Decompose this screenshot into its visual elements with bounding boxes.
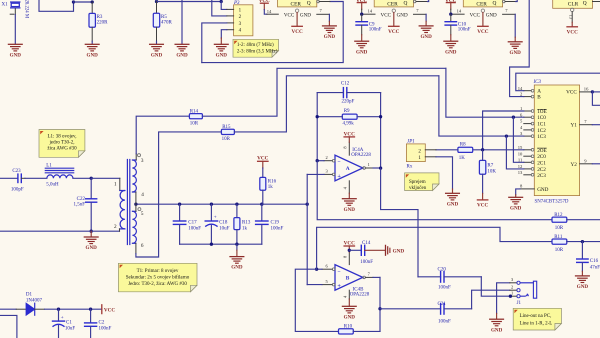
svg-text:2C1: 2C1 [537,160,546,166]
svg-text:100nF: 100nF [360,260,373,265]
VCC symbol at pin 14 of IC-CER1 [259,0,270,14]
pin 14 of IC-CER1 [267,9,279,14]
wire select B from top [510,0,530,97]
svg-text:Sprejem: Sprejem [409,180,426,185]
svg-text:4,99k: 4,99k [343,122,355,127]
svg-text:GND: GND [300,12,311,18]
ground below J1 [490,319,504,333]
svg-text:SN74CBT3257D: SN74CBT3257D [535,199,569,204]
svg-text:16: 16 [584,86,589,91]
svg-text:10R: 10R [555,248,564,253]
pin 7 output of IC4B [363,271,380,278]
IC with CLR pin [553,0,593,8]
pin 3 of T1 [136,154,144,164]
svg-text:28.224 M: 28.224 M [23,0,28,19]
capacitor C17 [173,204,201,244]
wire select A from right edge [516,73,600,91]
svg-text:1C3: 1C3 [537,134,546,140]
svg-text:C18: C18 [219,220,228,225]
oscillator IC-CER2 [374,0,413,7]
wire IC4B output vertical [379,277,381,331]
svg-text:100nF: 100nF [188,226,201,231]
pin 14 of IC-CER3 [451,9,464,15]
pin Q of CLR IC [593,1,600,3]
svg-text:C19: C19 [271,220,280,225]
svg-text:10R: 10R [190,122,199,127]
svg-text:P3: P3 [233,1,240,6]
svg-text:1C2: 1C2 [537,128,546,134]
svg-text:C1: C1 [66,321,72,326]
svg-text:J1: J1 [517,301,522,306]
wire bottom rail [180,243,262,245]
ground at x=182 [175,44,189,58]
svg-text:C21: C21 [438,302,447,307]
op IC3 body [533,80,580,204]
ground below IC4B [342,306,356,320]
ground below IC3 pin 8 [509,197,523,211]
svg-text:vključen: vključen [409,186,427,191]
svg-text:2OE: 2OE [537,148,547,154]
ground below X1 [8,44,22,58]
svg-text:Q: Q [583,1,587,7]
svg-text:VCC: VCC [284,12,295,18]
resistor R15 [221,76,439,142]
svg-text:+: + [337,173,341,180]
svg-text:Q: Q [403,0,407,6]
svg-text:4: 4 [141,192,144,198]
pin 3 of IC4A [307,169,335,176]
node junction L1 C22 [90,177,93,180]
node junction pin14 IC-CER3 [449,13,452,16]
svg-text:14: 14 [518,86,523,91]
pin 13 of CLR IC [569,8,574,26]
svg-text:jedro T30-2,: jedro T30-2, [49,141,75,146]
svg-text:+: + [61,315,64,321]
node junction 1C3 [505,134,508,137]
wire T1 pin3 to R14 [136,116,189,154]
wire feedback left vertical [316,93,318,161]
node junction IC4A output [379,166,382,169]
pin 4 of IC4B [342,290,349,306]
wire X1 to GND [14,9,16,44]
wire C20 to J1 pin1 [481,277,517,296]
wire J1 pin3 to ground [497,283,517,319]
capacitor C23 [0,169,47,193]
pin 7 of IC-CER3 [503,8,516,41]
VCC symbol below IC-CER1 [291,26,302,35]
svg-text:5: 5 [141,211,144,217]
VCC symbol below IC-CER2 [388,26,399,35]
svg-text:47nF: 47nF [590,265,600,270]
svg-text:Sekundar: 2x 5 ovojev bifilarn: Sekundar: 2x 5 ovojev bifilarno [126,275,190,280]
capacitor C14 [349,241,385,265]
pin 6 of T1 [136,243,144,254]
svg-text:100pF: 100pF [11,187,24,192]
resistor R9 [317,109,380,127]
svg-text:11: 11 [518,157,523,162]
svg-text:OPA2228: OPA2228 [350,293,370,298]
pin 5 of IC4B [307,279,335,286]
svg-text:A: A [346,166,350,172]
diode D1 [0,293,102,316]
wire from top to P3 pin 2 [212,0,227,16]
svg-text:100nF: 100nF [99,327,112,332]
resistor R16 [260,177,277,204]
ground at pin 7 of IC-CER3 [508,42,522,56]
svg-text:B: B [537,95,541,101]
svg-text:Y1: Y1 [570,123,577,129]
svg-text:CER: CER [387,1,398,7]
node junction 1C0 [512,116,515,119]
wire top-left loop [39,0,74,11]
wire 1C3 net [439,76,524,136]
node junction J1 pin1 [509,295,512,298]
svg-text:C12: C12 [341,82,350,87]
resistor R5 [153,2,172,44]
svg-text:1: 1 [511,291,513,296]
ground at pin 7 of IC-CER1 [323,26,337,40]
svg-text:R9: R9 [344,109,350,114]
pin 2 of JP1 [425,149,436,151]
pin 2 of IC4A [317,155,335,162]
capacitor C18 polarized [205,204,229,244]
svg-text:2: 2 [511,285,513,290]
wire P3 pin 3 to oscillator bus [202,23,227,63]
node junction bus C18 [210,203,213,206]
ground below C10 [444,41,458,55]
capacitor C22 [73,178,96,231]
svg-text:OPA2228: OPA2228 [351,153,371,158]
op-amp IC4B [335,265,370,298]
pins of IC3 left side [518,86,547,179]
svg-text:VCC: VCC [470,12,481,18]
node junction IC4B pin6 [315,268,318,271]
pin Q of oscillator IC-CER2 [413,0,428,3]
svg-text:Line in 1-R, 2-L: Line in 1-R, 2-L [520,322,553,327]
svg-text:14: 14 [368,9,373,14]
ground at pin 7 of IC-CER2 [419,26,433,40]
wire R5-node to P3 [157,1,222,3]
VCC symbol below CLR IC [567,27,578,36]
svg-text:470R: 470R [161,21,173,26]
svg-text:1k: 1k [268,185,274,190]
resistor R7 [479,150,496,200]
resistor R12 [552,213,600,231]
power pins label of IC-CER3 [470,9,497,26]
wire C21 to J1 pin2 [472,290,517,309]
ground below P3 [214,44,228,58]
svg-text:2: 2 [114,224,117,230]
wire 1OE net [483,111,524,150]
ground below R5 [150,44,164,58]
svg-text:Line-out na PC,: Line-out na PC, [520,314,552,319]
wire node down to P3 pin 1 [221,2,227,10]
svg-text:R7: R7 [487,164,493,169]
svg-text:R5: R5 [161,15,167,20]
svg-text:5,0uH: 5,0uH [46,183,59,188]
capacitor C21 [380,302,472,325]
svg-text:13: 13 [518,170,523,175]
ground below JP1 [446,193,460,207]
svg-text:B: B [346,275,350,281]
node junction at 73.5,2 [72,0,75,3]
svg-text:14: 14 [267,9,272,14]
pin GND 8 of IC3 [516,184,549,197]
wire 2OE row [473,149,524,151]
svg-text:220R: 220R [97,21,109,26]
wire vertical to ground at x=182 [181,0,183,44]
capacitor C10 [445,14,471,41]
pin 8 of IC4A [342,142,349,155]
svg-text:1OE: 1OE [537,109,547,115]
pin Q of oscillator IC-CER1 [317,0,330,3]
VCC symbol above pin 14 of IC-CER3 [445,0,456,14]
wire VCC16 net [591,90,600,105]
transformer T1 secondary top [132,160,136,192]
ground below IC4A [342,199,356,213]
resistor R3 [89,2,108,44]
svg-text:D1: D1 [26,293,33,298]
svg-text:1k: 1k [242,226,248,231]
note jumper settings [233,39,279,57]
svg-text:T1: Primar: 8 ovojev: T1: Primar: 8 ovojev [137,269,179,274]
crystal X1 [2,2,20,8]
svg-text:1-2: 40m (7 MHz): 1-2: 40m (7 MHz) [237,43,274,48]
svg-text:1C1: 1C1 [537,122,546,128]
wire T1 pin6 to R15 [136,132,222,257]
wire rail to ground [236,244,238,256]
connector P3 [233,1,253,36]
pin 3 of P3 [227,22,234,24]
svg-text:6: 6 [141,243,144,249]
node junction at R3 top [91,0,94,3]
svg-text:Y2: Y2 [570,162,577,168]
svg-text:žica AWG #30: žica AWG #30 [47,146,77,151]
svg-text:1C0: 1C0 [537,115,546,121]
node junction bus C19 R16 [260,203,263,206]
svg-text:R3: R3 [97,15,103,20]
svg-text:C22: C22 [77,197,86,202]
capacitor C16 [577,242,600,276]
svg-text:C14: C14 [362,241,371,246]
ground below C16 [576,276,590,290]
VCC symbol below R7 [477,200,488,209]
svg-text:CER: CER [291,1,302,7]
wire IC4A pin3 net vertical [306,174,308,284]
svg-text:15: 15 [518,145,523,150]
svg-text:100nF: 100nF [458,28,471,33]
node junction bus center-tap [134,203,137,206]
svg-text:X1: X1 [2,3,9,8]
svg-text:GND: GND [393,248,405,254]
svg-text:VCC: VCC [381,12,392,18]
svg-text:Q: Q [493,0,497,6]
wire feedback right vertical [380,93,382,169]
wire 1C0 to 2C1 [513,117,523,162]
svg-text:1: 1 [114,182,117,188]
ground below R3 [85,44,99,58]
svg-text:L1: 38 ovojev,: L1: 38 ovojev, [48,135,77,140]
wire IC4A pin2 to R12 [317,161,552,220]
svg-text:C23: C23 [12,169,21,174]
transformer T1 core [126,160,128,245]
wire P3 pin 4 to ground [221,30,227,44]
svg-text:1: 1 [368,162,370,167]
pin 4 of IC4A [342,181,349,199]
transformer T1 primary [91,178,125,231]
svg-text:+: + [337,283,341,290]
note receive enabled [405,173,439,191]
node junction rail C18 [210,243,213,246]
oscillator IC-CER3 [463,0,502,7]
VCC symbol above IC4B [344,240,355,252]
svg-text:GND: GND [486,12,497,18]
pin Q of oscillator IC-CER3 [503,0,518,3]
node junction bus C17 [178,203,181,206]
svg-text:+: + [214,214,217,220]
svg-text:R16: R16 [268,180,277,185]
node junction pin14 IC-CER2 [360,13,363,16]
svg-text:−: − [337,269,340,275]
svg-text:10K: 10K [487,169,496,174]
resistor R8 [436,143,473,161]
inductor L1 [45,164,91,188]
VCC symbol above R16 [257,156,268,178]
svg-text:10: 10 [518,151,523,156]
node junction R11 C16 [581,240,584,243]
svg-text:14: 14 [457,9,462,14]
pin 4 and 5 center tap of T1 [136,192,144,217]
node junction R9 right [379,115,382,118]
svg-text:3: 3 [141,158,144,164]
svg-text:GND: GND [537,187,548,193]
svg-text:10uF: 10uF [65,327,76,332]
svg-text:100nF: 100nF [271,226,284,231]
wire oscillator-1 output bus [202,2,343,63]
VCC symbol at D1 [102,305,116,314]
ground below C9 [355,41,369,55]
svg-text:100nF: 100nF [438,285,451,290]
svg-text:C16: C16 [590,259,599,264]
pin 7 of IC-CER1 [317,8,330,25]
svg-text:VCC: VCC [104,308,115,314]
power pins label of IC-CER2 [381,9,408,26]
svg-text:C2: C2 [99,321,105,326]
pin 4 of P3 [227,29,234,31]
note T1 windings [118,263,197,292]
pin 7 of IC-CER2 [414,8,427,25]
wire IC4B pin6 to R11 bus [317,227,552,269]
svg-text:220pF: 220pF [342,100,355,105]
node junction bus IC4A pin3 [306,203,309,206]
node junction output C21 [378,307,381,310]
wire primary return [0,230,120,232]
transformer T1 secondary bottom [132,211,136,243]
note L1 winding [39,130,85,158]
resistor R13 [234,204,251,244]
connector J1 jack [511,277,537,306]
capacitor C12 [317,82,380,105]
svg-text:VCC: VCC [566,90,577,96]
capacitor C9 [356,14,382,41]
wire 1C0 net [446,68,524,117]
ground sideways at C14 [386,245,405,255]
jumper JP1 [406,140,425,170]
resistor R14 [189,68,446,126]
node junction at R5 top [155,0,158,3]
capacitor C2 [85,309,112,338]
svg-text:12: 12 [518,164,523,169]
svg-text:GND: GND [397,12,408,18]
ground below R13 [230,257,244,271]
svg-text:−: − [337,160,340,166]
pin 1 of P3 [227,8,234,10]
node junction IC4A pin2 [316,159,319,162]
svg-text:Q: Q [307,0,311,6]
op-amp IC4A [335,148,371,181]
svg-text:2C3: 2C3 [537,173,546,179]
svg-text:2C0: 2C0 [537,154,546,160]
wire main bias bus [136,203,307,205]
svg-text:1,5nF: 1,5nF [73,202,85,207]
note line-out [513,308,561,330]
svg-text:10uF: 10uF [219,226,230,231]
svg-text:CER: CER [476,1,487,7]
wire IC4A output to C20 [381,168,418,277]
VCC symbol below IC-CER3 [477,26,488,35]
pin 1 of JP1 [425,156,436,158]
node junction D1 C2 [89,308,92,311]
VCC symbol above pin 14 of IC-CER2 [356,0,367,14]
resistor R11 [552,235,600,253]
capacitor C1 polarized [53,309,76,338]
wire 1C3 to 2C2 [506,136,523,169]
node junction D1 C1 [57,308,60,311]
capacitor C19 [256,204,284,244]
pin VCC 16 of IC3 [566,86,592,95]
wire JP1 pin1 to ground [436,157,453,193]
resistor R10 [339,324,381,334]
svg-text:10R: 10R [555,226,564,231]
pin Y1 of IC3 [570,119,600,129]
node junction rail R13 [235,243,238,246]
pin 8 of IC4B [342,252,349,265]
capacitor C20 [418,267,481,290]
node junction VCC C14 [348,249,351,252]
node junction R7 R8 [481,148,484,151]
node junction R9 left [316,115,319,118]
svg-text:2: 2 [325,155,327,160]
wire IC4B feedback to R10 [295,269,338,331]
pin 6 of IC4B [317,263,335,270]
tick mark near X1 [10,13,14,15]
wire bottom-left corner [0,315,17,338]
svg-text:R13: R13 [242,220,251,225]
wire node to R3 node [74,1,93,3]
pin 14 of IC-CER2 [362,9,375,15]
svg-text:100nF: 100nF [438,320,451,325]
oscillator IC-CER1 [278,0,317,7]
node junction bus R13 [235,203,238,206]
svg-text:IC3: IC3 [533,80,542,85]
node junction at P3 pin1 wire [220,0,223,3]
pin 2 of P3 [227,15,234,17]
node junction C22 ground wire [90,230,93,233]
svg-text:10R: 10R [222,137,231,142]
svg-text:C20: C20 [438,267,447,272]
svg-text:CLR: CLR [568,2,579,8]
svg-text:Rx: Rx [407,165,413,170]
